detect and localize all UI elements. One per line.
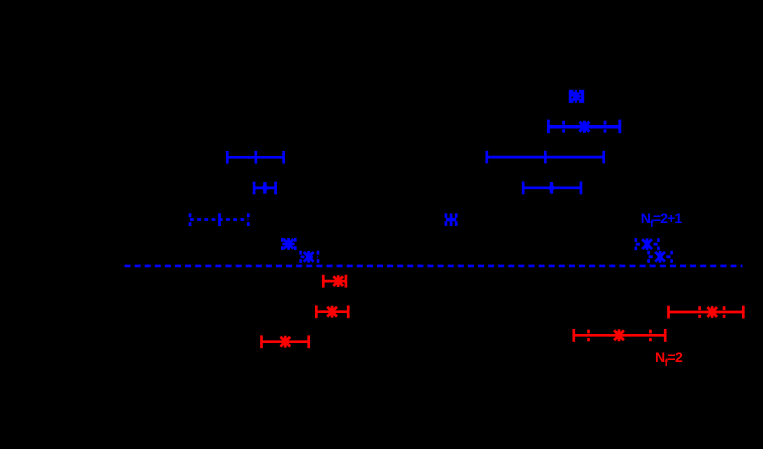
svg-text:Nf=2+1: Nf=2+1 [641,210,683,230]
blue datum row7 right: dashed error bar with asterisk at (660.1,256.8) [649,251,672,263]
blue datum row6 right: dashed error bar with asterisk at (647.1,244.2) [636,238,659,250]
blue datum row5 left: dashed error bar with solid plus at 219.5 [190,213,248,226]
red datum row9 right: error bar with inner dashed ticks, asterisk at (712.2,312) [669,306,744,319]
blue dashed reference line y=265.9 [125,265,743,268]
blue datum row7 left: asterisk with dashed caps at (308.7,256.9) [301,251,318,263]
label Nf=2+1 (blue) [641,210,683,230]
red datum row10: error bar with inner dashed ticks, asterisk at (619,335.3) [574,329,665,342]
red datum row11: solid error bar with asterisk at (285.3,341.7) [262,335,309,348]
blue datum row2: thick solid error bar, inner dashed ticks, asterisk at (584.4,126.7) [548,120,619,134]
blue datum row1: dashed error bar with asterisk at (576.6,96.3) [569,90,584,103]
red datum row9: solid error bar with asterisk at (332.1,311.7) [316,305,348,318]
blue datum row4 left: solid error bar with small marker at 264.9 [254,182,276,195]
blue datum row6 left: asterisk with tiny dashed caps at (288.6,243.9) [282,238,295,250]
red datum row8: solid error bar with asterisk at (338.2,281.1) [323,275,346,288]
blue datum row3 left: solid error bar with center tick at 255.8 [227,151,283,164]
svg-text:Nf=2: Nf=2 [655,349,683,369]
blue datum row5 mid: short bar, dashed caps, solid plus at 451.1 [446,213,456,226]
blue datum row3 right: solid error bar with center tick at 545.3 [487,151,604,164]
label Nf=2 (red) [655,349,683,369]
blue datum row4 right: solid error bar with small marker at 551.5 [523,182,581,195]
